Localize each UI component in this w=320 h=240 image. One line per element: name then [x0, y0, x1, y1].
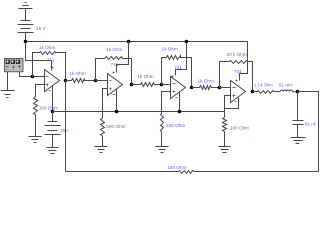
node U3 output	[190, 86, 194, 90]
svg-text:100 Ohm: 100 Ohm	[166, 123, 185, 128]
wire U4 + input to R11	[225, 96, 231, 118]
svg-text:100 Ohm: 100 Ohm	[39, 105, 58, 110]
ground (C1)	[291, 138, 306, 144]
node A (U1 inverting input junction)	[31, 75, 35, 79]
resistor R7 500 Ohm (U2 + input)	[101, 119, 105, 147]
resistor R12 1.3 k Ohm (output)	[253, 91, 281, 94]
node U2 output	[130, 83, 134, 87]
svg-text:20 k Ohm: 20 k Ohm	[227, 52, 247, 57]
node V1/rail junction	[24, 40, 28, 44]
wire U1 + input to R5	[36, 85, 45, 97]
svg-text:15 V: 15 V	[36, 26, 47, 31]
feedback resistor R10 20 k Ohm (U4)	[220, 61, 253, 92]
node U1 output	[64, 79, 68, 83]
wire rail to U2 V+	[127, 40, 131, 44]
ground (XFG1)	[1, 91, 15, 98]
ground (V2)	[47, 148, 59, 154]
node U4 output	[251, 90, 255, 94]
wire V1 to op-amp U1 V+ pin	[26, 42, 52, 71]
ground (above battery V1)	[19, 3, 33, 21]
resistor R4 1k Ohm (U3 out to U4)	[192, 86, 220, 90]
function generator XFG1	[5, 59, 24, 72]
ground (R7)	[95, 147, 108, 153]
ground (R5)	[29, 137, 42, 143]
svg-text:1k Ohm: 1k Ohm	[137, 74, 154, 79]
svg-text:61 nF: 61 nF	[305, 121, 317, 126]
wire -15V rail	[53, 111, 225, 113]
op-amp U2 741	[108, 74, 123, 96]
op-amp U4 741	[231, 81, 246, 103]
node U4 inverting input	[218, 86, 222, 90]
resistor R11 100 Ohm (U4 + input)	[223, 118, 227, 147]
wire U3 V- to -15V rail	[179, 93, 181, 112]
op-amp U1 741	[45, 70, 60, 92]
svg-text:500 Ohm: 500 Ohm	[106, 124, 125, 129]
svg-text:1k Ohm: 1k Ohm	[69, 71, 86, 76]
resistor R3 1k Ohm (U2 out to U3)	[132, 83, 162, 87]
ground (R11)	[219, 147, 231, 153]
resistor R9 100 Ohm (U3 + input)	[161, 114, 164, 147]
feedback resistor R1 1k Ohm (U1)	[33, 52, 66, 81]
svg-text:1k Ohm: 1k Ohm	[106, 47, 123, 52]
wire U3 + input to R9	[162, 92, 171, 114]
svg-text:1k Ohm: 1k Ohm	[39, 45, 56, 50]
wire XFG1 + terminal to U1 inverting input	[20, 72, 33, 77]
feedback resistor R8 1k Ohm (U3)	[162, 56, 192, 88]
wire U4 V- jog to +in column	[225, 98, 239, 109]
wire U2 + input to R7	[103, 89, 108, 119]
node U2 inverting input	[94, 79, 98, 83]
svg-text:15V: 15V	[60, 128, 69, 133]
battery V1 15 V	[18, 21, 34, 42]
wire U2 V- to -15V rail	[116, 90, 118, 112]
svg-text:741: 741	[47, 58, 55, 63]
wire XFG1 - terminal to ground	[7, 72, 9, 91]
resistor R2 1k Ohm (U1 out to U2)	[66, 79, 96, 83]
resistor R13 100 Ohm (bottom feedback)	[66, 81, 195, 174]
feedback resistor R6 1k Ohm (U2)	[96, 57, 132, 85]
op-amp U3 741	[171, 77, 186, 99]
svg-text:1.3 k Ohm: 1.3 k Ohm	[254, 83, 273, 88]
wire U1 V- pin to battery V2	[52, 86, 54, 112]
wire feedback loop right/bottom	[195, 92, 319, 172]
resistor R5 100 Ohm (U1 + input)	[34, 97, 38, 137]
svg-text:1k Ohm: 1k Ohm	[162, 47, 179, 52]
wire rail to U3 V+	[185, 40, 189, 44]
wire +15V rail (top)	[26, 41, 248, 43]
svg-text:100 Ohm: 100 Ohm	[230, 126, 249, 131]
wire input node to U1	[33, 76, 45, 78]
svg-text:51 mH: 51 mH	[279, 83, 293, 88]
node output tank	[296, 90, 300, 94]
svg-text:100 Ohm: 100 Ohm	[167, 165, 186, 170]
wire rail corner to U4 V+	[240, 42, 248, 81]
svg-text:1k Ohm: 1k Ohm	[198, 78, 215, 83]
capacitor C1 61 nF	[293, 92, 304, 138]
ground (R9)	[156, 147, 169, 153]
node U3 inverting input	[160, 83, 164, 87]
inductor L1 51 mH	[281, 90, 298, 92]
battery V2 15V	[51, 110, 55, 114]
